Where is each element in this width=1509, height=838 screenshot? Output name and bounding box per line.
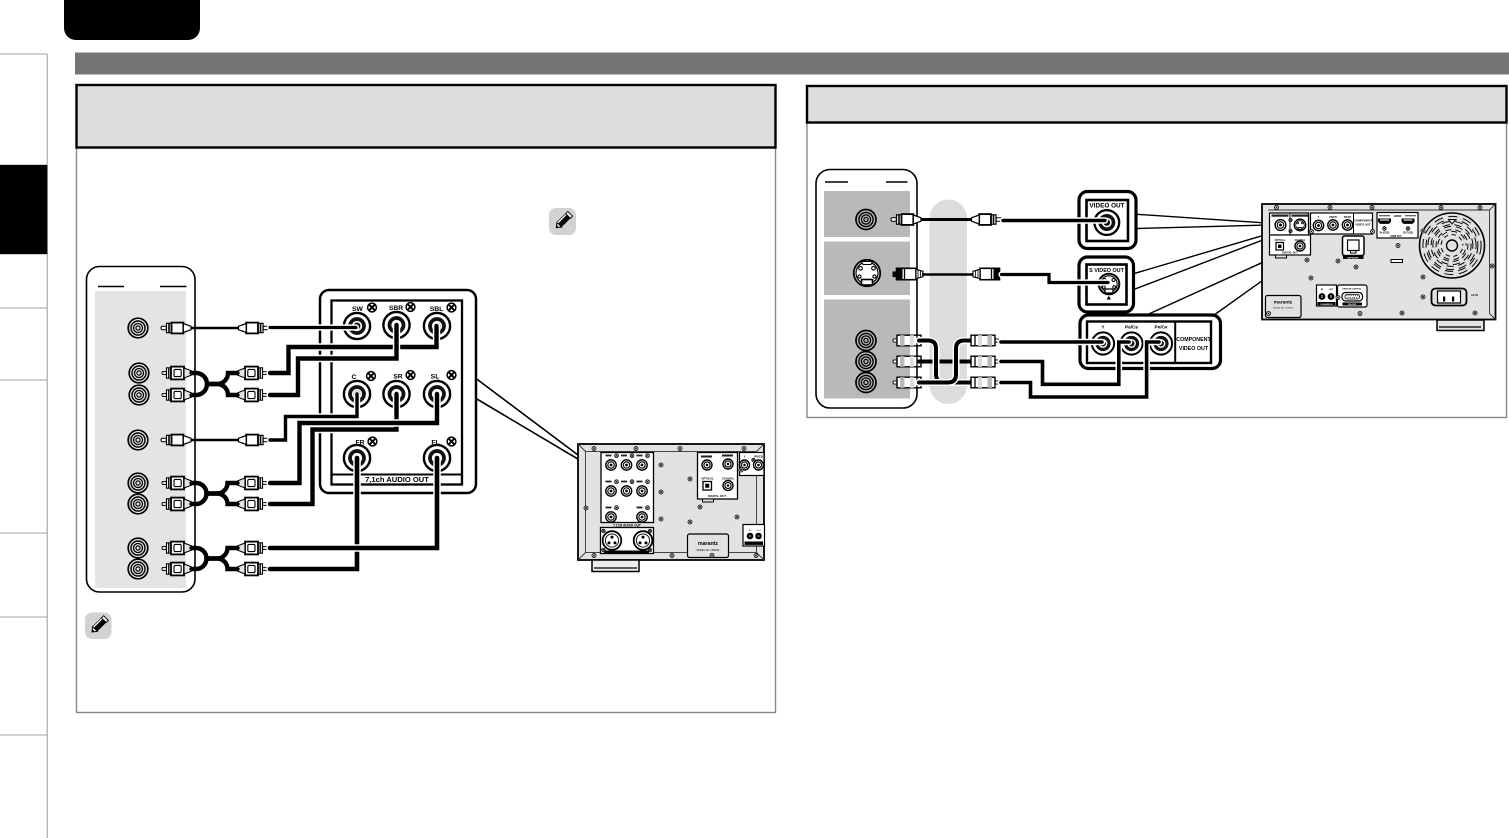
svg-text:VIDEO OUT: VIDEO OUT [1089, 203, 1124, 210]
svg-text:COMPONENT: COMPONENT [1176, 337, 1211, 343]
svg-text:DIGITAL OUT: DIGITAL OUT [1282, 252, 1298, 255]
svg-text:HDMI: HDMI [1394, 214, 1402, 218]
svg-text:OPTICAL: OPTICAL [1275, 239, 1286, 242]
svg-text:VIDEO OUT: VIDEO OUT [1355, 223, 1371, 227]
svg-text:SBR: SBR [389, 305, 403, 312]
svg-text:C: C [352, 374, 357, 381]
svg-text:marantz: marantz [698, 541, 718, 547]
svg-text:OPTICAL: OPTICAL [701, 477, 714, 481]
svg-text:OUT: OUT [756, 530, 761, 532]
svg-text:OUT: OUT [1329, 289, 1334, 291]
svg-text:REMOTE CONTROL: REMOTE CONTROL [1343, 289, 1363, 291]
svg-text:DIGITAL OUT: DIGITAL OUT [708, 494, 726, 498]
svg-text:FL: FL [431, 440, 439, 447]
svg-text:SBL: SBL [430, 306, 444, 313]
svg-text:PR/CR: PR/CR [1344, 216, 1352, 219]
svg-text:AC IN: AC IN [1471, 293, 1478, 297]
svg-text:marantz: marantz [1274, 300, 1293, 306]
svg-text:IN (OSD): IN (OSD) [1380, 233, 1390, 235]
svg-text:SL: SL [431, 374, 440, 381]
svg-text:OUT (SD): OUT (SD) [1403, 233, 1413, 235]
svg-text:NETWORK: NETWORK [1347, 257, 1359, 259]
svg-text:PB/CB: PB/CB [754, 455, 763, 459]
svg-text:SW: SW [352, 306, 364, 313]
svg-text:MODEL NO. UD9004: MODEL NO. UD9004 [697, 549, 720, 552]
svg-text:FR: FR [355, 440, 364, 447]
svg-text:MODEL NO. UD9004: MODEL NO. UD9004 [1273, 308, 1294, 310]
svg-text:SR: SR [393, 374, 403, 381]
svg-text:7,1ch AUDIO OUT: 7,1ch AUDIO OUT [365, 475, 429, 484]
svg-text:FLASHER IN: FLASHER IN [1321, 303, 1334, 306]
svg-text:7.1CH AUDIO OUT: 7.1CH AUDIO OUT [613, 523, 641, 527]
svg-text:Y: Y [1318, 215, 1320, 219]
svg-text:RS-232C: RS-232C [1348, 304, 1357, 306]
svg-text:VIDEO OUT: VIDEO OUT [1179, 346, 1209, 352]
svg-text:Y: Y [744, 455, 746, 459]
svg-text:PB/CB: PB/CB [1329, 216, 1337, 219]
svg-text:HDMI OUT: HDMI OUT [1390, 236, 1402, 238]
